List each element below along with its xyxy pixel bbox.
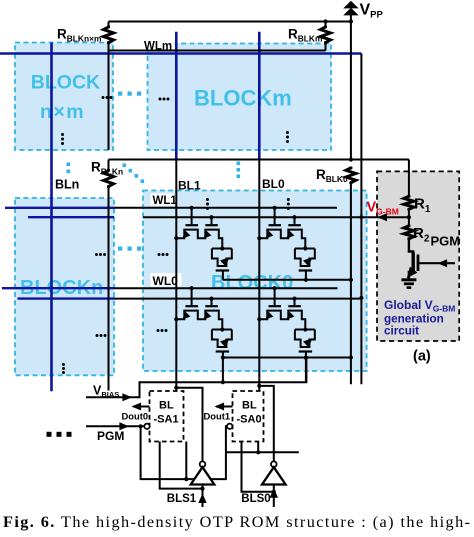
junction VG-BM vertical / WL1 second (359, 215, 363, 219)
junction row1 gate line / VPP vertical (349, 278, 353, 282)
wire VG-BM distribution vertical (360, 54, 362, 385)
wire BLS0 input (273, 485, 275, 508)
wire top VPP bus (109, 21, 351, 23)
wire mid VPP bus (109, 159, 409, 161)
cell M4 (WL0,BL0) antifuse (295, 330, 315, 348)
svg-text:BL1: BL1 (178, 179, 201, 193)
wire program column drop left (222, 358, 224, 383)
wire SA1 pin1 (160, 442, 203, 489)
wire WL0 navy left (2, 287, 114, 289)
wire SA0 pin1 (242, 442, 274, 492)
dots inside BLOCK nxm (61, 133, 64, 136)
wire Dout0 output (133, 406, 150, 408)
junction SA1 pin / PGM line (184, 477, 188, 481)
svg-text:BL0: BL0 (262, 177, 285, 191)
cell M1 (WL1,BL1) antifuse (212, 249, 232, 267)
wire VPP vertical lower (350, 183, 352, 384)
inverter BLS1 (200, 461, 206, 467)
wire WL0 second black (114, 298, 361, 300)
dots cyan near R_BLKn (67, 163, 71, 167)
junction VPP line top bus (349, 19, 353, 23)
resistor R_BLK0 (344, 168, 357, 183)
wire BL1 lower vertical (175, 160, 177, 392)
wire WL1 second black / VG-BM (143, 216, 409, 218)
svg-text:BLn: BLn (55, 178, 79, 192)
arrow BLS0 (270, 488, 278, 498)
box global VG-BM generation circuit (377, 171, 459, 341)
svg-text:-SA0: -SA0 (237, 414, 262, 426)
wire SA0 feedback to inverter (257, 384, 261, 388)
dots bottom left continuation (47, 432, 52, 437)
junction VPP mid bus (349, 157, 353, 161)
cell M3 (WL0,BL1) select transistors (191, 288, 193, 305)
wire WL0 black (114, 287, 338, 289)
cell M2 (WL1,BL0) antifuse (295, 249, 315, 267)
wire SA1 feedback to inverter (174, 386, 178, 390)
resistor R_BLKm (319, 27, 332, 43)
wire program column drop right (305, 358, 307, 383)
box BL-SA0 (233, 391, 264, 442)
block BLOCKm (148, 44, 332, 151)
wire SA0 pin2 (257, 442, 259, 453)
dots inside BLOCK0 top (206, 198, 209, 201)
svg-text:BL: BL (242, 400, 257, 412)
transistor source to ground (409, 272, 413, 279)
wire BL1 upper navy (175, 32, 178, 160)
wire PGM input (86, 425, 144, 427)
junction SA0 pin2 / bus (256, 450, 260, 454)
dots inside BLOCKn (96, 334, 99, 337)
wire WL1 second navy left (28, 216, 114, 218)
arrow BLS1 (198, 494, 206, 504)
junction PGM branch (139, 424, 143, 428)
resistor R_BLKnxm (102, 27, 115, 43)
cell M3 (WL0,BL1) antifuse (212, 330, 232, 348)
dots continuation mid row (95, 253, 98, 256)
wire select bus right (226, 451, 299, 453)
wire Dout1 output (216, 406, 233, 408)
wire VPP vertical upper (350, 14, 352, 160)
svg-text:PGM: PGM (97, 429, 124, 443)
junction R1 R2 VG-BM node (407, 215, 411, 219)
box BL-SA1 (150, 391, 184, 442)
cell M1 (WL1,BL1) select transistors (191, 208, 193, 224)
wire SA1 pin2 (185, 442, 187, 480)
svg-text:Dout0: Dout0 (122, 411, 149, 422)
block BLOCK n x m (15, 43, 113, 151)
junction RBLKm top (323, 19, 327, 23)
wire BLS1 input (202, 485, 204, 508)
svg-text:BL: BL (159, 400, 174, 412)
wire PGM to SA0 (141, 426, 227, 479)
wire BL0 lower vertical (258, 160, 260, 392)
patch WL1 (151, 194, 177, 206)
block BLOCKn (15, 198, 114, 375)
junction VBIAS wire / program column (221, 380, 225, 384)
cell M4 (WL0,BL0) select transistors (274, 288, 276, 305)
patch WLm (142, 39, 175, 52)
wire WLm navy line (0, 52, 361, 55)
wire WL1 navy left (5, 207, 114, 209)
wire WL1 row antifuse gate line (223, 279, 351, 281)
bubble PGM SA0 (227, 424, 232, 429)
svg-text:BLOCKm: BLOCKm (194, 86, 292, 111)
svg-text:Dout1: Dout1 (204, 411, 231, 422)
dots inside BLOCK0 row0 (157, 329, 160, 332)
junction antifuse gate M4 (304, 355, 308, 359)
arrow VG-BM output (378, 213, 388, 221)
resistor R2 (408, 211, 410, 225)
svg-text:WL1: WL1 (153, 195, 178, 207)
wire PGM gate (418, 262, 455, 264)
svg-text:circuit: circuit (384, 325, 419, 338)
power symbol VPP (343, 1, 358, 9)
transistor PGM driver (409, 240, 413, 254)
svg-text:(a): (a) (413, 349, 431, 365)
junction VG-BM vertical / WL0 second (359, 296, 363, 300)
svg-text:-SA1: -SA1 (154, 414, 179, 426)
wire BL0 upper navy (258, 32, 261, 160)
wire WL0 row antifuse gate line (223, 357, 351, 359)
svg-text:BLS1: BLS1 (167, 493, 197, 505)
svg-text:Fig. 6. The high-density OTP R: Fig. 6. The high-density OTP ROM structu… (3, 513, 470, 531)
arrow PGM gate input (438, 259, 448, 267)
wire WL1 black (114, 207, 337, 209)
patch WL0 (151, 273, 182, 287)
wire left navy bit line (50, 43, 53, 392)
dots continuation top row (102, 96, 105, 99)
ground (401, 278, 416, 281)
junction antifuse gate M2 (304, 278, 308, 282)
resistor R1 (404, 195, 414, 211)
resistor R_BLKn (102, 170, 115, 186)
junction row0 gate line / VPP vertical (349, 355, 353, 359)
wire WL0 second navy left (18, 297, 115, 299)
dots inside BLOCKm (286, 131, 289, 134)
svg-text:BLOCK: BLOCK (31, 72, 100, 94)
block BLOCK0 (143, 191, 367, 372)
cell M2 (WL1,BL0) select transistors (274, 208, 276, 224)
svg-text:BLS0: BLS0 (241, 493, 270, 505)
wire BLn lower vertical (108, 160, 110, 391)
svg-text:WL0: WL0 (153, 274, 179, 288)
wire R1 top feed (408, 160, 410, 197)
wire RBLKm vertical (325, 22, 327, 51)
svg-text:WLm: WLm (144, 41, 172, 53)
svg-text:PGM: PGM (431, 234, 461, 249)
svg-text:n×m: n×m (40, 101, 85, 123)
bubble PGM SA1 (144, 424, 149, 429)
wire BLn upper vertical (108, 22, 110, 151)
inverter BLS0 (271, 461, 277, 467)
wire WLm black (109, 50, 326, 52)
wire VBIAS input (86, 358, 306, 398)
arrow VBIAS (122, 393, 132, 401)
